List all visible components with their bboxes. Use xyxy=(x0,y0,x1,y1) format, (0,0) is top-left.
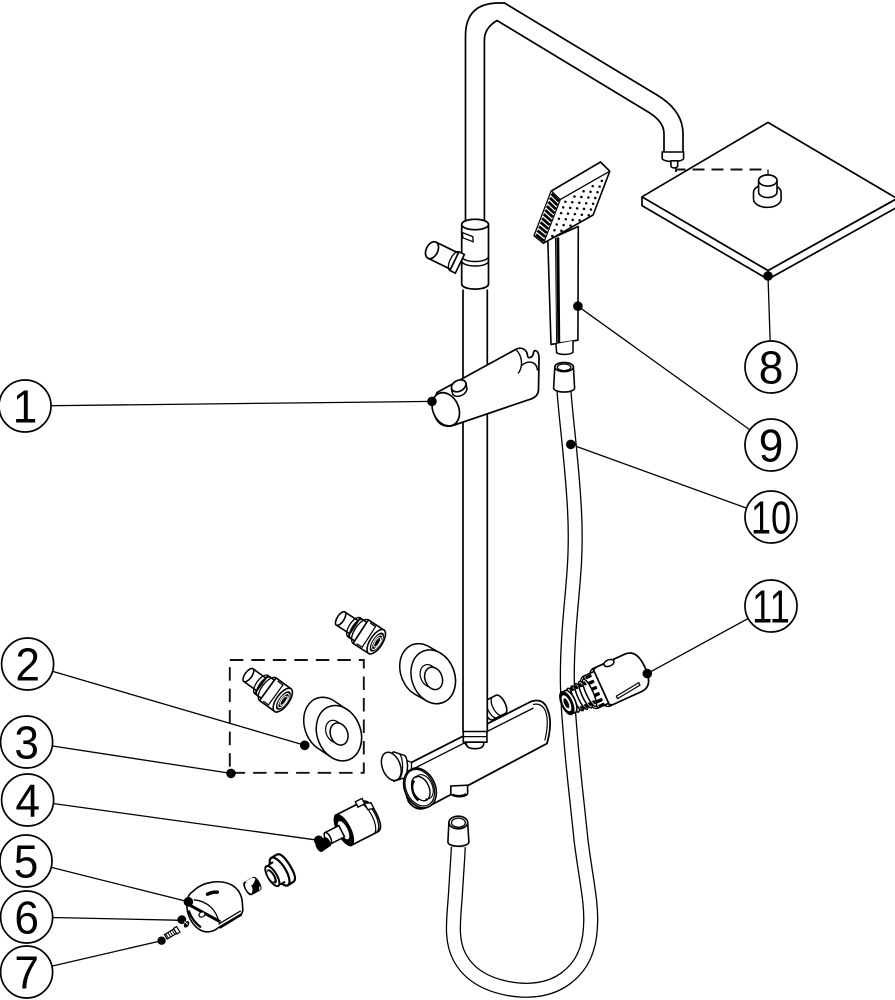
callout balloon 6 xyxy=(1,891,53,944)
svg-text:10: 10 xyxy=(751,491,791,543)
valve body (thermostatic mixer) xyxy=(405,701,550,809)
svg-text:5: 5 xyxy=(14,836,39,888)
leader line 10 xyxy=(571,444,771,517)
diverter cartridge (item 4) xyxy=(305,796,384,861)
svg-text:2: 2 xyxy=(15,639,40,691)
hand shower head (item 9) xyxy=(534,162,610,243)
shower arm pipe with top bend xyxy=(466,3,684,226)
rail bottom collar xyxy=(463,732,487,749)
dashed alignment line xyxy=(676,170,764,173)
plate inlet connector xyxy=(754,175,782,207)
spray face chamfer (dark) xyxy=(534,191,560,243)
spray face nozzle dots xyxy=(551,180,603,238)
overhead shower plate (item 8) xyxy=(642,122,895,279)
callout balloon 5 xyxy=(0,835,52,888)
leader dot 8 xyxy=(763,271,773,281)
callout balloon 10 xyxy=(745,491,797,544)
valve bottom outlet xyxy=(451,785,468,797)
leader dot 2 xyxy=(300,741,310,751)
leader dot 9 xyxy=(573,301,583,311)
leader line 4 xyxy=(28,800,319,840)
leader line 2 xyxy=(28,664,305,745)
callout balloon 7 xyxy=(1,946,53,999)
callout balloon 9 xyxy=(745,419,797,472)
leader line 5 xyxy=(26,861,188,902)
shower hose (item 10) xyxy=(453,391,590,990)
svg-text:8: 8 xyxy=(759,342,784,394)
leader dot 11 xyxy=(643,669,653,679)
leader line 6 xyxy=(27,917,183,920)
leader dot 5 xyxy=(184,897,194,907)
dashed grouping box (items 2,3) xyxy=(230,660,364,773)
handle hex nut xyxy=(242,876,262,896)
leader line 7 xyxy=(27,941,162,972)
valve front opening xyxy=(397,763,442,813)
set screw (item 6) xyxy=(177,915,186,924)
leader line 1 xyxy=(25,401,432,406)
arm end cap xyxy=(662,152,683,168)
hand shower bracket (item 1) xyxy=(427,348,539,430)
callout balloon 8 xyxy=(745,341,797,394)
leader dot 10 xyxy=(566,440,576,450)
escutcheon ring (right) xyxy=(400,644,456,704)
hose upper ferrule xyxy=(554,362,575,392)
leader dot 3 xyxy=(226,769,236,779)
escutcheon ring (in box) xyxy=(304,697,362,761)
lower rail pipe xyxy=(463,289,487,733)
svg-text:9: 9 xyxy=(759,420,784,472)
svg-text:1: 1 xyxy=(13,381,38,433)
leader dot 1 xyxy=(427,397,437,407)
rail clamp lever xyxy=(422,238,464,273)
callout balloon 2 xyxy=(2,638,54,691)
svg-text:6: 6 xyxy=(14,892,39,944)
control handle (item 5) xyxy=(187,882,243,932)
valve inlet check nut (left) xyxy=(378,749,412,783)
wall union fitting (upper) xyxy=(330,605,389,657)
callout balloon 11 xyxy=(745,580,797,633)
svg-text:3: 3 xyxy=(14,717,39,769)
svg-text:11: 11 xyxy=(752,580,790,632)
svg-text:4: 4 xyxy=(15,775,40,827)
callout balloon 4 xyxy=(2,774,54,827)
callout balloon 3 xyxy=(1,716,53,769)
leader line 3 xyxy=(27,742,231,773)
handle dome cap xyxy=(260,852,298,892)
rail clamp sleeve xyxy=(462,219,489,289)
thermostatic cartridge (item 11) xyxy=(553,647,654,724)
leader line 11 xyxy=(647,606,771,674)
callout balloon 1 xyxy=(0,380,51,433)
hand shower handle xyxy=(548,227,579,355)
svg-text:7: 7 xyxy=(14,947,39,999)
screw (item 7) xyxy=(157,937,165,945)
leader line 8 xyxy=(768,276,771,367)
leader dot 4 xyxy=(314,836,324,846)
leader line 9 xyxy=(578,306,771,445)
hose lower ferrule xyxy=(448,816,469,846)
wall union fitting (in box, item 2/3 group) xyxy=(237,662,296,715)
valve top port nut xyxy=(480,693,510,722)
